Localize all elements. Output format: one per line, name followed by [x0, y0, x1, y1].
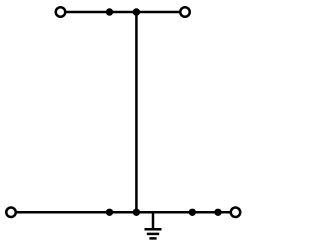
junction: bottom bus right dot 2 [214, 209, 221, 216]
terminal: bottom-right clamp point (open circle) [231, 208, 241, 218]
ground stem [152, 212, 155, 228]
junction: top bus left dot [106, 8, 113, 15]
terminal: top-left clamp point (open circle) [56, 7, 66, 17]
terminal: top-right clamp point (open circle) [180, 7, 190, 17]
ground bar 3 (narrow) [149, 237, 156, 240]
wire: bottom horizontal bus [11, 211, 236, 214]
terminal: bottom-left clamp point (open circle) [6, 208, 16, 218]
ground bar 2 (middle) [147, 233, 159, 236]
ground bar 1 (wide) [145, 228, 162, 231]
junction: bottom bus left dot [106, 209, 113, 216]
wire: top horizontal bus [61, 11, 186, 14]
ground: PE earth symbol [145, 212, 162, 238]
junction: bottom bus / vertical wire [133, 209, 140, 216]
junction: top bus / vertical wire [133, 8, 140, 15]
junction: bottom bus right dot 1 [189, 209, 196, 216]
wire: vertical link between top and bottom bus [135, 12, 138, 212]
